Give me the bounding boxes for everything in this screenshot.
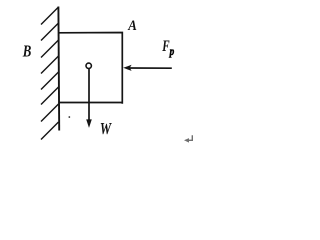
svg-text:W: W — [100, 119, 112, 138]
weight vector W: arrowhead — [86, 119, 92, 128]
block (square) — [59, 33, 123, 104]
wall hatching stroke 4 — [41, 56, 59, 74]
svg-text:B: B — [22, 42, 31, 61]
wall hatching stroke 3 — [41, 40, 59, 58]
force F_p: shaft — [128, 67, 172, 69]
svg-text:A: A — [127, 18, 137, 34]
center pivot circle — [86, 63, 91, 68]
wall hatching stroke 8 — [41, 122, 59, 140]
weight vector W: shaft — [88, 69, 90, 121]
carriage-return (enter) mark — [186, 135, 192, 140]
wall hatching stroke 2 — [41, 23, 59, 41]
wall hatching stroke 5 — [41, 72, 59, 90]
wall hatching stroke 7 — [41, 104, 59, 122]
stray ink dot below block — [69, 116, 71, 118]
force F_p: arrowhead — [123, 65, 131, 71]
svg-text:p: p — [169, 46, 175, 58]
wall hatching stroke 1 — [41, 7, 59, 25]
wall hatching stroke 6 — [41, 87, 59, 105]
wall vertical line — [57, 7, 60, 131]
